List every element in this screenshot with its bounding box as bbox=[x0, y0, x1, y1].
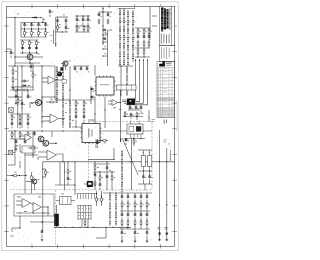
junction bbox=[24, 28, 25, 29]
ground bbox=[121, 240, 124, 242]
title text line 3 bbox=[166, 9, 168, 28]
wire bbox=[138, 183, 152, 185]
resistor R15 bbox=[143, 29, 145, 35]
wire bbox=[87, 30, 89, 32]
junction bbox=[96, 193, 97, 194]
wire bbox=[16, 204, 22, 206]
wire bbox=[8, 96, 22, 98]
wire bbox=[7, 17, 42, 19]
label bbox=[89, 207, 90, 210]
op-amp U2 bbox=[50, 114, 59, 123]
label bbox=[16, 144, 18, 147]
wire bbox=[118, 8, 135, 10]
capacitor C39 bbox=[106, 175, 109, 179]
label bbox=[97, 166, 99, 169]
junction bbox=[74, 184, 75, 185]
junction bbox=[127, 13, 128, 14]
wire bbox=[99, 172, 101, 176]
capacitor C35 bbox=[15, 140, 18, 144]
label bbox=[129, 36, 130, 39]
wire bbox=[75, 31, 90, 33]
wire bbox=[90, 88, 93, 90]
transistor Q6 bbox=[32, 179, 37, 184]
wire bbox=[127, 211, 129, 214]
resistor R13 bbox=[137, 29, 139, 35]
wire bbox=[22, 40, 24, 42]
wire bbox=[49, 15, 51, 18]
wire bbox=[134, 193, 136, 196]
resistor R55 bbox=[17, 98, 19, 103]
label bbox=[15, 70, 17, 73]
resistor R4 bbox=[45, 30, 47, 36]
sub-part box bbox=[62, 80, 66, 84]
wire bbox=[42, 120, 50, 122]
wire bbox=[19, 136, 21, 139]
label bbox=[26, 24, 28, 27]
label bbox=[35, 74, 37, 77]
junction bbox=[83, 126, 84, 127]
wire bbox=[38, 151, 47, 153]
label bbox=[78, 19, 80, 22]
wire bbox=[146, 211, 148, 214]
wire bbox=[22, 51, 24, 53]
wire bbox=[148, 33, 150, 36]
junction bbox=[45, 28, 46, 29]
junction bbox=[55, 142, 57, 144]
junction bbox=[64, 227, 65, 228]
wire bbox=[19, 144, 21, 152]
wire bbox=[30, 221, 55, 223]
wire bbox=[57, 17, 59, 19]
junction bbox=[120, 102, 121, 103]
resistor R64 bbox=[102, 140, 107, 142]
label bbox=[89, 27, 91, 30]
wire bbox=[31, 23, 33, 25]
junction bbox=[149, 170, 150, 171]
junction bbox=[72, 227, 73, 228]
wire bbox=[21, 80, 23, 82]
label bbox=[65, 111, 67, 114]
label bbox=[70, 178, 72, 181]
wire bbox=[121, 150, 123, 190]
wire bbox=[14, 131, 16, 165]
wire bbox=[21, 66, 23, 128]
junction bbox=[87, 15, 88, 16]
wire bbox=[27, 127, 29, 129]
wire bbox=[27, 136, 29, 139]
wire bbox=[49, 9, 51, 11]
wire bbox=[88, 148, 114, 159]
label bbox=[100, 84, 109, 85]
junction bbox=[123, 45, 124, 46]
junction bbox=[67, 161, 68, 162]
resistor R44 bbox=[121, 202, 123, 208]
capacitor C5 bbox=[21, 46, 24, 50]
capacitor C10 bbox=[65, 19, 68, 23]
label bbox=[104, 142, 106, 145]
wire bbox=[148, 110, 150, 122]
wire bbox=[38, 35, 40, 37]
wire bbox=[97, 139, 99, 142]
wire bbox=[140, 218, 142, 222]
junction bbox=[102, 48, 103, 49]
wire bbox=[42, 18, 44, 23]
junction bbox=[17, 113, 18, 114]
junction bbox=[41, 96, 42, 97]
wire bbox=[119, 8, 121, 65]
wire bbox=[133, 143, 135, 146]
capacitor C23 bbox=[19, 122, 22, 126]
wire bbox=[67, 182, 69, 186]
resistor R65 bbox=[12, 175, 18, 177]
wire bbox=[56, 79, 62, 81]
junction bbox=[143, 59, 144, 60]
junction bbox=[102, 34, 103, 35]
junction bbox=[41, 65, 42, 66]
wire bbox=[15, 100, 17, 103]
resistor R29 bbox=[75, 108, 77, 114]
IC U4 bbox=[95, 76, 116, 97]
wire bbox=[55, 31, 68, 33]
wire bbox=[120, 228, 150, 230]
junction bbox=[102, 25, 103, 26]
label bbox=[59, 26, 61, 29]
wire bbox=[121, 211, 123, 214]
capacitor C6 bbox=[28, 46, 31, 50]
wire bbox=[140, 224, 142, 229]
wire bbox=[130, 118, 132, 120]
capacitor C33 bbox=[140, 106, 143, 110]
wire bbox=[56, 205, 58, 214]
junction bbox=[127, 45, 128, 46]
wire bbox=[17, 103, 19, 107]
wire bbox=[14, 18, 16, 64]
label bbox=[26, 31, 28, 34]
resistor R25 bbox=[11, 115, 13, 121]
wire bbox=[36, 40, 38, 42]
capacitor C11 bbox=[76, 18, 79, 22]
wire bbox=[56, 226, 58, 227]
label bbox=[13, 52, 15, 55]
wire bbox=[27, 131, 29, 133]
revision entries text bbox=[158, 68, 167, 115]
wire bbox=[143, 40, 145, 43]
wire bbox=[10, 138, 30, 140]
wire bbox=[38, 23, 40, 25]
diode D2 bbox=[22, 84, 26, 86]
resistor R3 bbox=[38, 30, 40, 36]
junction bbox=[139, 59, 140, 60]
wire bbox=[86, 66, 88, 68]
resistor R49 bbox=[121, 220, 123, 226]
label bbox=[141, 112, 143, 115]
label bbox=[142, 152, 144, 155]
wire bbox=[127, 200, 129, 204]
label bbox=[137, 232, 139, 235]
wire bbox=[120, 66, 122, 96]
label bbox=[21, 116, 23, 119]
resistor R32 bbox=[124, 112, 126, 117]
wire bbox=[43, 169, 46, 171]
wire bbox=[103, 48, 108, 50]
wire bbox=[75, 120, 77, 128]
capacitor C8 bbox=[49, 10, 52, 14]
wire bbox=[121, 193, 123, 196]
label bbox=[123, 203, 125, 206]
capacitor C48 bbox=[121, 213, 124, 217]
wire bbox=[87, 219, 89, 227]
wire bbox=[125, 143, 127, 145]
wire bbox=[15, 62, 40, 64]
wire bbox=[143, 45, 145, 48]
label bbox=[17, 196, 21, 199]
wire bbox=[124, 115, 126, 118]
wire bbox=[27, 94, 29, 96]
wire bbox=[93, 163, 110, 165]
label bbox=[24, 210, 27, 213]
capacitor C52 bbox=[146, 213, 149, 217]
wire bbox=[143, 28, 145, 30]
wire bbox=[105, 227, 107, 238]
wire bbox=[148, 45, 150, 48]
label bbox=[33, 176, 35, 179]
transistor Q5 bbox=[43, 140, 49, 146]
junction bbox=[100, 140, 101, 141]
wire bbox=[142, 180, 144, 185]
wire bbox=[138, 170, 152, 172]
wire bbox=[21, 99, 23, 103]
wire bbox=[19, 216, 21, 228]
wire bbox=[152, 15, 157, 17]
wire bbox=[25, 151, 29, 153]
capacitor C50 bbox=[134, 213, 137, 217]
label bbox=[69, 60, 71, 63]
wire bbox=[81, 219, 83, 227]
junction bbox=[136, 116, 137, 117]
capacitor C2 bbox=[30, 23, 33, 27]
wire bbox=[127, 206, 129, 211]
wire bbox=[126, 60, 148, 105]
resistor R5 bbox=[22, 40, 24, 46]
wire bbox=[118, 102, 121, 104]
label bbox=[88, 71, 90, 74]
junction bbox=[133, 138, 134, 139]
junction bbox=[79, 227, 80, 228]
ground bbox=[165, 239, 168, 241]
wire bbox=[107, 30, 109, 66]
wire bbox=[17, 66, 19, 128]
capacitor C61 bbox=[21, 102, 24, 106]
capacitor C57 bbox=[166, 232, 169, 236]
capacitor C9 bbox=[56, 19, 59, 23]
wire bbox=[27, 119, 29, 123]
wire bbox=[57, 154, 64, 162]
label bbox=[134, 20, 135, 23]
junction bbox=[29, 62, 30, 63]
label bbox=[38, 41, 40, 44]
capacitor C66 bbox=[65, 26, 68, 30]
capacitor C38 bbox=[106, 166, 109, 170]
resistor R8 bbox=[83, 26, 85, 31]
wire bbox=[127, 218, 129, 222]
junction bbox=[159, 204, 160, 205]
label bbox=[76, 71, 78, 74]
title text line 1 bbox=[161, 7, 163, 31]
op-amp U6 bbox=[33, 203, 42, 212]
resistor R38 bbox=[29, 151, 35, 153]
wire bbox=[80, 66, 82, 68]
sub-board outline bbox=[22, 146, 35, 153]
resistor R45 bbox=[127, 202, 129, 208]
capacitor C26 bbox=[80, 67, 83, 71]
wire bbox=[98, 12, 100, 14]
junction bbox=[132, 29, 133, 30]
wire bbox=[32, 212, 34, 214]
resistor R37 bbox=[27, 132, 29, 138]
wire bbox=[24, 139, 26, 141]
capacitor C31 bbox=[135, 106, 138, 110]
junction bbox=[119, 13, 120, 14]
label bbox=[133, 114, 135, 117]
label bbox=[43, 18, 45, 21]
drawing frame bbox=[7, 6, 175, 246]
wire bbox=[51, 131, 53, 137]
junction bbox=[102, 55, 103, 56]
wire bbox=[12, 81, 14, 86]
junction bbox=[28, 85, 29, 86]
wire bbox=[135, 105, 137, 108]
capacitor C68 bbox=[99, 183, 102, 187]
junction bbox=[76, 15, 77, 16]
wire bbox=[75, 105, 77, 109]
label bbox=[47, 171, 49, 174]
wire bbox=[15, 139, 17, 141]
resistor R48 bbox=[146, 202, 148, 208]
title small text rows bbox=[161, 34, 170, 45]
capacitor C30 bbox=[129, 106, 132, 110]
wire bbox=[137, 45, 139, 48]
capacitor C17 bbox=[137, 35, 140, 39]
wire bbox=[29, 45, 31, 48]
wire bbox=[127, 193, 129, 196]
wire bbox=[120, 210, 150, 212]
transistor Q3 bbox=[36, 100, 42, 106]
wire bbox=[94, 162, 96, 190]
label bbox=[145, 30, 147, 33]
capacitor C63 bbox=[90, 96, 94, 99]
capacitor C18 bbox=[143, 35, 146, 39]
wire bbox=[76, 30, 78, 32]
wire bbox=[45, 35, 47, 37]
wire bbox=[124, 111, 126, 113]
wire bbox=[146, 200, 148, 204]
wire bbox=[103, 41, 108, 43]
wire bbox=[83, 100, 85, 102]
wire bbox=[34, 131, 36, 133]
resistor R9 bbox=[76, 26, 78, 31]
junction bbox=[82, 15, 83, 16]
junction bbox=[159, 161, 160, 162]
junction bbox=[104, 109, 105, 110]
wire bbox=[65, 23, 67, 28]
capacitor C22 bbox=[11, 122, 14, 126]
label bbox=[79, 214, 80, 217]
ground bbox=[15, 148, 18, 150]
wire bbox=[27, 114, 29, 116]
wire bbox=[140, 105, 142, 108]
wire bbox=[127, 224, 129, 229]
capacitor C16 bbox=[103, 37, 107, 40]
wire bbox=[61, 63, 63, 65]
label bbox=[104, 45, 106, 48]
junction bbox=[102, 43, 103, 44]
wire bbox=[97, 146, 99, 149]
wire bbox=[32, 63, 34, 90]
wire bbox=[136, 116, 138, 120]
junction bbox=[43, 212, 44, 213]
wire bbox=[24, 28, 26, 30]
label bbox=[85, 102, 87, 105]
label bbox=[24, 103, 26, 106]
label bbox=[20, 99, 22, 102]
resistor R52 bbox=[140, 220, 142, 226]
wire bbox=[22, 45, 24, 48]
wire bbox=[24, 23, 26, 25]
capacitor C51 bbox=[140, 213, 143, 217]
wire bbox=[31, 179, 33, 193]
wire bbox=[14, 63, 16, 66]
junction bbox=[129, 161, 130, 162]
resistor R33 bbox=[136, 112, 138, 117]
wire bbox=[69, 100, 71, 128]
label bbox=[59, 24, 61, 27]
label bbox=[51, 40, 53, 43]
op-amp U4 bbox=[47, 150, 57, 160]
wire bbox=[82, 16, 84, 19]
wire bbox=[24, 29, 26, 32]
junction bbox=[32, 17, 33, 18]
op-amp U1 bbox=[48, 76, 56, 84]
wire bbox=[32, 131, 34, 158]
junction bbox=[31, 28, 32, 29]
wire bbox=[65, 66, 67, 70]
wire bbox=[101, 191, 103, 206]
resistor R16 bbox=[143, 41, 145, 47]
resistor R11 bbox=[98, 19, 100, 24]
junction bbox=[14, 65, 15, 66]
wire bbox=[143, 53, 145, 57]
wire bbox=[137, 28, 139, 30]
wire bbox=[140, 211, 142, 214]
junction bbox=[106, 161, 107, 162]
label bbox=[38, 53, 40, 56]
diagonal wire bbox=[122, 138, 138, 175]
power device dark body bbox=[127, 99, 135, 105]
wire bbox=[56, 66, 58, 103]
label bbox=[128, 140, 130, 143]
resistor R54 bbox=[32, 73, 34, 78]
junction bbox=[90, 96, 91, 97]
wire bbox=[123, 8, 125, 65]
junction bbox=[17, 89, 18, 90]
title block divider 2 bbox=[159, 46, 174, 62]
label bbox=[30, 96, 32, 99]
junction bbox=[109, 192, 110, 193]
label bbox=[31, 102, 33, 105]
wire bbox=[62, 66, 64, 128]
label bbox=[31, 41, 33, 44]
resistor R51 bbox=[134, 220, 136, 226]
